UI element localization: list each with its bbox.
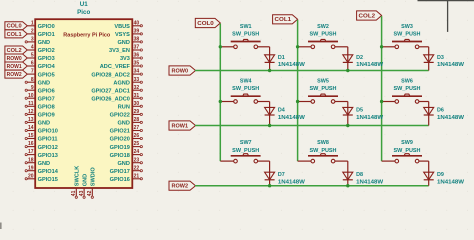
svg-text:16: 16 xyxy=(28,141,34,147)
svg-text:22: 22 xyxy=(134,165,140,171)
svg-text:Raspberry Pi Pico: Raspberry Pi Pico xyxy=(63,33,111,39)
svg-text:RUN: RUN xyxy=(118,105,130,111)
svg-text:GPIO2: GPIO2 xyxy=(38,48,55,54)
switch SW9 SW_PUSH xyxy=(382,140,429,163)
svg-text:COL1: COL1 xyxy=(7,32,22,38)
diode D2 1N4148W xyxy=(343,47,384,71)
svg-text:GND: GND xyxy=(117,40,129,46)
svg-text:D7: D7 xyxy=(278,172,285,178)
global label ROW0 at pin 5 xyxy=(5,54,27,62)
switch SW7 SW_PUSH xyxy=(220,140,269,163)
svg-text:GPIO20: GPIO20 xyxy=(110,137,130,143)
pin 36 3V3 (right) xyxy=(120,53,142,63)
svg-text:9: 9 xyxy=(31,85,34,91)
svg-text:GPIO28_ADC2: GPIO28_ADC2 xyxy=(91,72,130,78)
svg-text:42: 42 xyxy=(87,190,93,196)
svg-text:AGND: AGND xyxy=(113,80,129,86)
wire COL2 vertical xyxy=(381,16,383,161)
junction row0 / diode D1 xyxy=(268,69,271,72)
svg-text:SW4: SW4 xyxy=(240,79,252,85)
svg-text:SW6: SW6 xyxy=(401,79,413,85)
junction row2 / diode D7 xyxy=(268,184,271,187)
svg-text:GPIO27_ADC1: GPIO27_ADC1 xyxy=(91,88,130,94)
svg-text:GND: GND xyxy=(82,174,88,186)
svg-text:GPIO18: GPIO18 xyxy=(110,153,130,159)
svg-text:3: 3 xyxy=(31,37,34,43)
svg-text:10: 10 xyxy=(28,93,34,99)
pin 27 GPIO21 (right) xyxy=(110,125,143,135)
svg-text:GPIO13: GPIO13 xyxy=(38,153,58,159)
global label ROW1 (matrix left) xyxy=(169,121,196,130)
svg-text:GND: GND xyxy=(38,161,50,167)
svg-text:1N4148W: 1N4148W xyxy=(437,115,465,121)
pin 12 GPIO9 (left) xyxy=(25,109,55,119)
junction col2 / switch row 1 xyxy=(380,100,383,103)
svg-text:GPIO7: GPIO7 xyxy=(38,97,55,103)
pin 31 GPIO26_ADC0 (right) xyxy=(91,93,142,103)
pin 24 GPIO18 (right) xyxy=(110,149,143,159)
junction row1 / diode D4 xyxy=(268,124,271,127)
svg-text:SW5: SW5 xyxy=(317,79,329,85)
pin 38 GND (right) xyxy=(117,37,142,47)
svg-text:GPIO12: GPIO12 xyxy=(38,145,58,151)
global label COL0 at pin 1 xyxy=(5,22,27,30)
svg-text:1N4148W: 1N4148W xyxy=(278,115,306,121)
pin 14 GPIO10 (left) xyxy=(25,125,58,135)
svg-text:Pico: Pico xyxy=(77,9,90,16)
pin 42 SWDIO (bottom) xyxy=(87,167,96,199)
svg-text:GND: GND xyxy=(38,80,50,86)
svg-text:29: 29 xyxy=(134,109,140,115)
svg-text:14: 14 xyxy=(28,125,34,131)
svg-text:18: 18 xyxy=(28,157,34,163)
pin 22 GPIO17 (right) xyxy=(110,165,143,175)
diode D7 1N4148W xyxy=(265,161,306,186)
svg-text:D3: D3 xyxy=(437,55,444,61)
svg-text:20: 20 xyxy=(28,173,34,179)
junction col1 / switch row 0 xyxy=(296,45,299,48)
svg-text:SW7: SW7 xyxy=(240,140,252,146)
graphic line vertical (top right) xyxy=(447,0,449,32)
op-amp U1 Raspberry Pi Pico symbol body xyxy=(35,19,132,188)
switch SW1 SW_PUSH xyxy=(220,24,269,49)
svg-text:GPIO15: GPIO15 xyxy=(38,177,58,183)
wire COL1 vertical xyxy=(297,20,299,161)
global label ROW2 at pin 7 xyxy=(5,70,27,78)
svg-text:GPIO17: GPIO17 xyxy=(110,169,130,175)
svg-text:26: 26 xyxy=(134,133,140,139)
svg-text:SW1: SW1 xyxy=(240,24,252,30)
svg-text:19: 19 xyxy=(28,165,34,171)
svg-text:ROW2: ROW2 xyxy=(7,72,22,78)
pin 16 GPIO12 (left) xyxy=(25,141,58,151)
svg-text:1N4148W: 1N4148W xyxy=(278,62,306,68)
svg-text:ROW0: ROW0 xyxy=(7,56,22,62)
wire COL0 vertical xyxy=(219,24,221,162)
svg-text:33: 33 xyxy=(134,77,140,83)
svg-text:GPIO4: GPIO4 xyxy=(38,64,56,70)
pin 26 GPIO20 (right) xyxy=(110,133,143,143)
diode D6 1N4148W xyxy=(424,102,465,126)
svg-text:17: 17 xyxy=(28,149,34,155)
svg-text:23: 23 xyxy=(134,157,140,163)
global label COL1 (matrix top) xyxy=(273,15,298,24)
svg-text:GPIO10: GPIO10 xyxy=(38,129,58,135)
diode D8 1N4148W xyxy=(343,161,384,186)
svg-text:1N4148W: 1N4148W xyxy=(356,62,384,68)
svg-text:GPIO9: GPIO9 xyxy=(38,113,55,119)
svg-text:1N4148W: 1N4148W xyxy=(437,180,465,186)
svg-text:VSYS: VSYS xyxy=(115,32,130,38)
svg-text:GPIO3: GPIO3 xyxy=(38,56,55,62)
switch SW5 SW_PUSH xyxy=(298,79,348,104)
svg-text:ROW1: ROW1 xyxy=(172,123,189,129)
svg-text:3V3: 3V3 xyxy=(120,56,130,62)
svg-text:COL0: COL0 xyxy=(7,24,22,30)
pin 41 SWCLK (bottom) xyxy=(71,166,80,199)
svg-text:SW_PUSH: SW_PUSH xyxy=(232,148,259,154)
junction col0 / switch row 0 xyxy=(219,45,222,48)
svg-text:D9: D9 xyxy=(437,172,444,178)
diode D3 1N4148W xyxy=(424,47,465,71)
junction col1 / switch row 1 xyxy=(296,100,299,103)
svg-text:D5: D5 xyxy=(356,107,363,113)
svg-text:SW_PUSH: SW_PUSH xyxy=(310,32,337,38)
svg-text:GPIO14: GPIO14 xyxy=(38,169,59,175)
svg-text:D4: D4 xyxy=(278,107,285,113)
junction row0 / diode D2 xyxy=(346,69,349,72)
global label ROW2 (matrix left) xyxy=(169,181,196,190)
pin 17 GPIO13 (left) xyxy=(25,149,58,159)
pin 6 GPIO4 (left) xyxy=(27,61,55,71)
svg-text:36: 36 xyxy=(134,53,140,59)
pin 23 GND (right) xyxy=(117,157,142,167)
pin 28 GND (right) xyxy=(117,117,142,127)
svg-text:27: 27 xyxy=(134,125,140,131)
svg-text:GPIO8: GPIO8 xyxy=(38,105,55,111)
svg-text:D8: D8 xyxy=(356,172,363,178)
pin 40 VBUS (right) xyxy=(114,20,142,30)
pin 13 GND (left) xyxy=(25,117,50,127)
svg-text:VBUS: VBUS xyxy=(114,24,130,30)
pin 1 GPIO0 (left) xyxy=(27,20,54,30)
svg-text:3V3_EN: 3V3_EN xyxy=(109,48,130,54)
svg-text:41: 41 xyxy=(71,190,77,196)
pin 18 GND (left) xyxy=(25,157,50,167)
svg-text:39: 39 xyxy=(134,29,140,35)
global label ROW0 (matrix left) xyxy=(169,66,196,75)
svg-text:SW_PUSH: SW_PUSH xyxy=(310,148,337,154)
diode D5 1N4148W xyxy=(343,102,384,126)
svg-text:ROW0: ROW0 xyxy=(172,68,189,74)
svg-text:12: 12 xyxy=(28,109,34,115)
svg-text:SW2: SW2 xyxy=(317,24,329,30)
junction row1 / diode D5 xyxy=(346,124,349,127)
svg-text:38: 38 xyxy=(134,37,140,43)
svg-text:13: 13 xyxy=(28,117,34,123)
pin 43 GND (bottom) xyxy=(79,174,88,199)
junction col0 / switch row 1 xyxy=(219,100,222,103)
svg-text:COL1: COL1 xyxy=(275,17,292,23)
svg-text:GPIO0: GPIO0 xyxy=(38,24,55,30)
diode D4 1N4148W xyxy=(265,102,306,126)
svg-text:SW8: SW8 xyxy=(317,140,329,146)
svg-text:GPIO21: GPIO21 xyxy=(110,129,130,135)
svg-text:31: 31 xyxy=(134,93,140,99)
switch SW3 SW_PUSH xyxy=(382,24,429,49)
svg-text:25: 25 xyxy=(134,141,140,147)
svg-text:ADC_VREF: ADC_VREF xyxy=(100,64,131,70)
svg-text:1: 1 xyxy=(31,20,34,26)
svg-text:4: 4 xyxy=(31,45,34,51)
svg-text:D2: D2 xyxy=(356,55,363,61)
pin 9 GPIO6 (left) xyxy=(25,85,55,95)
graphic line top edge (right) xyxy=(418,0,474,2)
pin 25 GPIO19 (right) xyxy=(110,141,143,151)
svg-text:GPIO26_ADC0: GPIO26_ADC0 xyxy=(91,97,130,103)
pin 7 GPIO5 (left) xyxy=(27,69,54,79)
diode D1 1N4148W xyxy=(265,47,306,71)
junction row2 / diode D8 xyxy=(346,184,349,187)
svg-text:21: 21 xyxy=(134,173,140,179)
svg-text:COL2: COL2 xyxy=(7,48,22,54)
pin 15 GPIO11 (left) xyxy=(25,133,57,143)
svg-text:GND: GND xyxy=(38,40,50,46)
svg-text:GND: GND xyxy=(117,121,129,127)
svg-text:SWDIO: SWDIO xyxy=(91,167,97,187)
pin 8 GND (left) xyxy=(25,77,50,87)
switch SW6 SW_PUSH xyxy=(382,79,429,104)
pin 4 GPIO2 (left) xyxy=(27,45,54,55)
svg-text:GND: GND xyxy=(38,121,50,127)
global label COL0 (matrix top) xyxy=(195,18,220,27)
svg-text:SW_PUSH: SW_PUSH xyxy=(232,32,259,38)
svg-text:SW9: SW9 xyxy=(401,140,413,146)
svg-text:SW_PUSH: SW_PUSH xyxy=(310,86,337,92)
pin 39 VSYS (right) xyxy=(115,29,142,39)
global label ROW1 at pin 6 xyxy=(5,62,27,70)
svg-text:D6: D6 xyxy=(437,107,444,113)
svg-text:15: 15 xyxy=(28,133,34,139)
svg-text:1N4148W: 1N4148W xyxy=(356,180,384,186)
switch SW4 SW_PUSH xyxy=(220,79,269,104)
svg-text:11: 11 xyxy=(28,101,34,107)
svg-text:40: 40 xyxy=(134,20,140,26)
svg-text:SWCLK: SWCLK xyxy=(75,166,81,187)
pin 2 GPIO1 (left) xyxy=(27,29,54,39)
svg-text:8: 8 xyxy=(31,77,34,83)
switch SW2 SW_PUSH xyxy=(298,24,348,49)
pin 29 GPIO22 (right) xyxy=(110,109,143,119)
svg-text:6: 6 xyxy=(31,61,34,67)
svg-text:43: 43 xyxy=(79,190,85,196)
edge mark bottom-left xyxy=(0,223,2,230)
pin 21 GPIO16 (right) xyxy=(110,173,143,183)
pin 33 AGND (right) xyxy=(113,77,142,87)
svg-text:1N4148W: 1N4148W xyxy=(437,62,465,68)
svg-text:GPIO16: GPIO16 xyxy=(110,177,130,183)
svg-text:GPIO1: GPIO1 xyxy=(38,32,55,38)
svg-text:28: 28 xyxy=(134,117,140,123)
svg-text:34: 34 xyxy=(134,69,140,75)
svg-text:37: 37 xyxy=(134,45,140,51)
svg-text:GPIO22: GPIO22 xyxy=(110,113,130,119)
svg-text:30: 30 xyxy=(134,101,140,107)
svg-text:SW_PUSH: SW_PUSH xyxy=(394,148,421,154)
svg-text:COL0: COL0 xyxy=(197,21,214,27)
pin 10 GPIO7 (left) xyxy=(25,93,55,103)
svg-text:COL2: COL2 xyxy=(359,13,376,19)
pin 32 GPIO27_ADC1 (right) xyxy=(91,85,142,95)
svg-text:24: 24 xyxy=(134,149,140,155)
pin 37 3V3_EN (right) xyxy=(109,45,142,55)
switch SW8 SW_PUSH xyxy=(298,140,348,163)
svg-text:SW_PUSH: SW_PUSH xyxy=(394,86,421,92)
global label COL2 (matrix top) xyxy=(357,11,382,20)
svg-text:GPIO5: GPIO5 xyxy=(38,72,55,78)
pin 30 RUN (right) xyxy=(118,101,143,111)
wire ROW1 horizontal xyxy=(195,125,429,127)
svg-text:ROW1: ROW1 xyxy=(7,64,22,70)
svg-text:GPIO19: GPIO19 xyxy=(110,145,130,151)
svg-text:SW_PUSH: SW_PUSH xyxy=(394,32,421,38)
pin 34 GPIO28_ADC2 (right) xyxy=(91,69,142,79)
svg-text:35: 35 xyxy=(134,61,140,67)
diode D9 1N4148W xyxy=(424,161,465,186)
pin 5 GPIO3 (left) xyxy=(27,53,54,63)
global label COL1 at pin 2 xyxy=(5,30,27,38)
svg-text:7: 7 xyxy=(31,69,34,75)
svg-text:1N4148W: 1N4148W xyxy=(278,180,306,186)
svg-text:GPIO6: GPIO6 xyxy=(38,88,55,94)
svg-text:GND: GND xyxy=(117,161,129,167)
svg-text:SW3: SW3 xyxy=(401,24,413,30)
svg-text:D1: D1 xyxy=(278,55,285,61)
svg-text:32: 32 xyxy=(134,85,140,91)
pin 11 GPIO8 (left) xyxy=(25,101,55,111)
pin 20 GPIO15 (left) xyxy=(25,173,58,183)
svg-text:5: 5 xyxy=(31,53,34,59)
pin 3 GND (left) xyxy=(25,37,50,47)
svg-text:SW_PUSH: SW_PUSH xyxy=(232,86,259,92)
svg-text:U1: U1 xyxy=(80,1,88,8)
junction col2 / switch row 0 xyxy=(380,45,383,48)
wire ROW0 horizontal xyxy=(195,70,429,72)
pin 35 ADC_VREF (right) xyxy=(100,61,143,71)
svg-text:1N4148W: 1N4148W xyxy=(356,115,384,121)
pin 19 GPIO14 (left) xyxy=(25,165,59,175)
global label COL2 at pin 4 xyxy=(5,46,27,54)
svg-text:GPIO11: GPIO11 xyxy=(38,137,58,143)
svg-text:2: 2 xyxy=(31,29,34,35)
wire ROW2 horizontal xyxy=(195,185,429,187)
svg-text:ROW2: ROW2 xyxy=(172,184,189,190)
